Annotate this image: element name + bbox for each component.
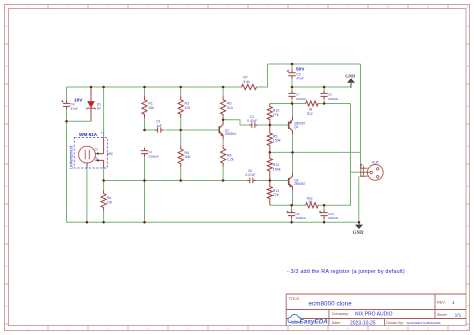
- svg-text:D: D: [6, 145, 8, 148]
- svg-text:50V: 50V: [296, 67, 305, 72]
- wire ground segment y87 right: [292, 86, 351, 88]
- svg-text:Q2: Q2: [294, 125, 298, 129]
- svg-text:30k: 30k: [185, 155, 191, 159]
- wire Q1 collector to C3: [223, 120, 249, 125]
- wire C2 row y130: [145, 129, 155, 131]
- svg-text:XLR: XLR: [372, 160, 379, 164]
- ground GND (bottom): [358, 222, 360, 224]
- svg-text:R12: R12: [307, 112, 313, 116]
- zener diode D1 6V: [90, 87, 92, 101]
- svg-text:G: G: [6, 265, 8, 268]
- capacitor C9 2200pF: [321, 90, 328, 99]
- resistor R4 30k: [180, 130, 182, 146]
- junction dots: [90, 86, 93, 89]
- wire ground rail y222.3: [67, 221, 360, 223]
- svg-text:36: 36: [309, 108, 313, 112]
- svg-text:3300pF: 3300pF: [148, 155, 159, 159]
- svg-text:- 3/3 add the RA registor (a j: - 3/3 add the RA registor (a jumper by d…: [287, 269, 405, 275]
- wire 16V rail y87: [67, 86, 242, 88]
- svg-text:2200uF: 2200uF: [328, 216, 339, 220]
- svg-text:H: H: [6, 305, 8, 308]
- svg-text:D: D: [467, 145, 469, 148]
- resistor R13 36: [305, 203, 318, 208]
- resistor R6 910: [222, 87, 224, 97]
- svg-text:1500uF: 1500uF: [295, 216, 306, 220]
- capacitor C4 47uF: [63, 100, 70, 109]
- svg-text:EasyEDA: EasyEDA: [300, 318, 329, 325]
- svg-text:0.47uF: 0.47uF: [245, 173, 255, 177]
- svg-text:1: 1: [452, 300, 455, 306]
- resistor R9 912: [305, 101, 318, 106]
- resistor R1 15k: [144, 87, 146, 97]
- transistor Q3 2N5087 (PNP): [288, 178, 290, 185]
- svg-text:SHOCKERZ SUPRANAMA: SHOCKERZ SUPRANAMA: [407, 321, 441, 325]
- EasyEDA logo: [288, 314, 328, 325]
- capacitor C10 2200uF: [323, 205, 325, 210]
- svg-text:150k: 150k: [273, 168, 281, 172]
- wire lower filter y205.3: [270, 204, 306, 206]
- wire XLR pin3 down to ground: [358, 176, 360, 222]
- resistor R10 27k: [267, 104, 272, 126]
- svg-text:47uF: 47uF: [71, 107, 78, 111]
- svg-text:C: C: [467, 105, 469, 108]
- transistor Q1 2N3904 (NPN): [218, 126, 220, 133]
- svg-text:Date:: Date:: [332, 321, 341, 325]
- title block: [286, 294, 466, 326]
- svg-text:910: 910: [227, 106, 233, 110]
- svg-text:WM-61A: WM-61A: [79, 132, 98, 137]
- wire R7 right to 50V corner: [257, 64, 268, 87]
- svg-text:36: 36: [309, 200, 313, 204]
- svg-text:27k: 27k: [273, 113, 279, 117]
- resistor R3 47k: [180, 87, 182, 97]
- capacitor C8 1500uF: [291, 205, 293, 210]
- svg-text:ecm8000 clone: ecm8000 clone: [309, 300, 353, 307]
- svg-text:1.2k: 1.2k: [227, 158, 234, 162]
- resistor R8 1.2k: [222, 140, 224, 146]
- capacitor C6 0.47uF: [247, 178, 256, 184]
- ground GND (top): [350, 83, 352, 88]
- wire pin2 stub: [351, 171, 361, 173]
- wire signal rail y180.5: [104, 180, 247, 182]
- resistor R5 150k: [267, 125, 272, 152]
- wire mid y152: [270, 151, 361, 153]
- wire D1 bottom y121.2: [67, 120, 92, 122]
- svg-text:G: G: [467, 265, 469, 268]
- svg-text:REV:: REV:: [437, 301, 446, 305]
- wire mic drain column x103.6: [103, 87, 105, 138]
- svg-text:16V: 16V: [74, 98, 83, 103]
- wire 50V top y64: [268, 63, 361, 65]
- svg-text:2N3904: 2N3904: [225, 132, 236, 136]
- svg-text:15k: 15k: [148, 106, 154, 110]
- svg-text:10k: 10k: [107, 200, 113, 204]
- svg-text:2200pF: 2200pF: [328, 97, 339, 101]
- capacitor C3 0.47uF: [249, 122, 258, 128]
- transistor Q2 2N5087 (PNP): [288, 122, 290, 129]
- svg-text:GND: GND: [353, 231, 364, 236]
- capacitor C7 1500pF: [291, 87, 293, 91]
- svg-text:5.6k: 5.6k: [243, 80, 250, 84]
- resistor RA 10k (jumper by default): [103, 181, 105, 191]
- wire mic source column to signal rail: [103, 168, 105, 181]
- svg-text:2N5087: 2N5087: [294, 182, 305, 186]
- svg-text:Drawn By:: Drawn By:: [386, 321, 404, 325]
- svg-text:0.47uF: 0.47uF: [247, 119, 257, 123]
- wire phantom filter y103.5: [270, 103, 306, 105]
- svg-text:47uF: 47uF: [296, 77, 303, 81]
- svg-text:27k: 27k: [273, 193, 279, 197]
- svg-text:GND: GND: [345, 73, 356, 78]
- svg-text:1/1: 1/1: [455, 313, 462, 319]
- wire mic case pin to ground: [86, 168, 88, 222]
- svg-text:1500pF: 1500pF: [296, 97, 307, 101]
- svg-text:TITLE:: TITLE:: [289, 297, 300, 301]
- wire x350.5 down to pin2 and lower filter: [350, 104, 352, 206]
- svg-text:NIX PRO AUDIO: NIX PRO AUDIO: [355, 312, 393, 318]
- svg-text:Sheet:: Sheet:: [437, 313, 448, 317]
- svg-text:MIC: MIC: [107, 152, 114, 156]
- svg-text:H: H: [467, 305, 469, 308]
- electret capsule MIC WM-61A (Linkwitz mod): [74, 138, 107, 168]
- resistor R12 150k: [267, 152, 272, 180]
- resistor R11 27k: [267, 181, 272, 206]
- svg-text:2023-10-25: 2023-10-25: [350, 321, 376, 327]
- svg-text:150k: 150k: [273, 139, 281, 143]
- wire C3 to base node: [258, 124, 289, 126]
- resistor R7 5.6k: [241, 84, 256, 89]
- svg-text:C: C: [6, 105, 8, 108]
- capacitor C2 1uF: [155, 127, 164, 133]
- wire 50V drop to XLR pin1: [360, 64, 362, 168]
- capacitor C1 3300pF: [141, 148, 148, 157]
- svg-text:Company:: Company:: [332, 312, 349, 316]
- svg-text:1uF: 1uF: [156, 124, 162, 128]
- capacitor C5 47uF: [291, 64, 293, 70]
- svg-text:47k: 47k: [185, 106, 191, 110]
- wire left column x66.5: [66, 87, 68, 100]
- svg-text:Linkwitzmod: Linkwitzmod: [69, 145, 74, 169]
